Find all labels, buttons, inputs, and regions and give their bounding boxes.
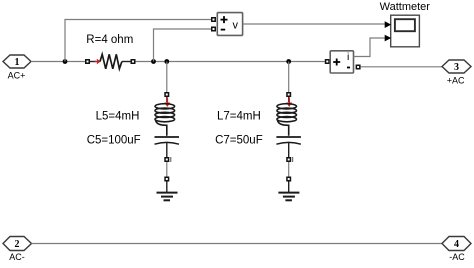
node junction left [63, 59, 68, 64]
port 2 AC- [3, 237, 32, 263]
svg-text:AC+: AC+ [8, 70, 26, 80]
port 3 +AC [442, 60, 471, 85]
svg-text:1: 1 [15, 57, 20, 68]
capacitor C5 [155, 136, 180, 138]
node junction branch L5 [164, 59, 169, 64]
branch L7/C7 (series RLC branch vertical) [276, 62, 301, 177]
ground G1 [157, 177, 178, 201]
svg-text:+AC: +AC [447, 75, 465, 85]
svg-text:2: 2 [15, 239, 20, 250]
current measurement block I [325, 51, 361, 73]
svg-text:L7=4mH: L7=4mH [217, 111, 261, 123]
svg-text:C5=100uF: C5=100uF [87, 135, 141, 147]
branch L5/C5 (series RLC branch vertical) [155, 62, 180, 177]
svg-text:v: v [233, 20, 239, 32]
capacitor C7 [276, 136, 301, 138]
node junction branch L7 [286, 59, 291, 64]
wire port 2 to port 4 [32, 243, 443, 245]
svg-text:Wattmeter: Wattmeter [380, 1, 431, 13]
svg-text:3: 3 [454, 62, 459, 73]
red current arrow L7 [288, 98, 290, 104]
wire voltmeter output to wattmeter input 1 [243, 23, 385, 25]
Wattmeter scope block [385, 15, 420, 47]
port 4 -AC [442, 237, 471, 263]
svg-text:4: 4 [454, 239, 459, 250]
svg-text:-AC: -AC [449, 252, 465, 262]
ground G2 [278, 177, 299, 201]
wire port1 to resistor [31, 61, 85, 63]
node junction to voltmeter minus [151, 59, 156, 64]
wire junction up to voltmeter + input [65, 20, 211, 62]
svg-text:L5=4mH: L5=4mH [96, 111, 140, 123]
svg-text:i: i [347, 51, 349, 63]
voltage measurement block V [211, 13, 243, 36]
inductor L7 coil [277, 104, 297, 136]
wire current block output to port 3 [361, 66, 442, 68]
inductor L5 coil [155, 104, 175, 136]
svg-text:C7=50uF: C7=50uF [215, 135, 263, 147]
resistor R=4 ohm (series RLC branch) [85, 54, 136, 69]
red current arrow L5 [166, 98, 168, 104]
svg-text:R=4 ohm: R=4 ohm [86, 34, 133, 46]
wire resistor to current block [136, 61, 326, 63]
svg-text:AC-: AC- [9, 252, 25, 262]
wire current signal to wattmeter input 2 [354, 38, 386, 57]
port 1 AC+ [3, 55, 31, 80]
wire junction to voltmeter - input [154, 29, 212, 62]
